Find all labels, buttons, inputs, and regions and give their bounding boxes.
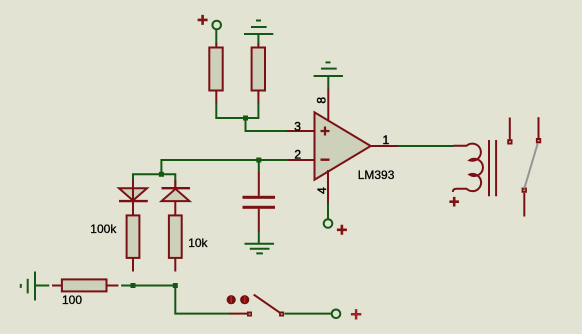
relay contact right (NO): [536, 117, 541, 143]
resistor R2 (top right, vertical): [252, 43, 265, 104]
wire: terminal to R1: [215, 30, 217, 44]
pin number 8 (rotated): [315, 97, 329, 104]
pin 2 lead of op-amp: [287, 159, 315, 161]
wire: diode tops horizontal: [133, 174, 175, 188]
svg-text:8: 8: [315, 97, 329, 104]
junction at 10k bottom: [173, 283, 178, 288]
switch SW1 blade: [254, 295, 282, 314]
svg-text:10k: 10k: [188, 236, 208, 250]
pin number 4 (rotated): [315, 187, 329, 194]
op-amp pin 1 lead: [371, 145, 398, 147]
svg-text:2: 2: [294, 147, 301, 161]
switch SW1 left lead: [229, 313, 247, 315]
junction at diode net: [159, 172, 164, 177]
ground (inverted) above R2: [244, 21, 273, 45]
plus mark near coil: [449, 197, 459, 207]
pin number 1: [383, 133, 390, 147]
power terminal + bottom right: [332, 309, 362, 319]
ground above op-amp (inverted): [314, 62, 343, 76]
label 100: [62, 293, 82, 307]
wire: pin 1 to relay coil: [398, 145, 455, 147]
resistor R4 10k: [169, 215, 182, 271]
resistor R3 100k: [127, 215, 140, 271]
wire: junction down to op-amp pin 3: [246, 118, 289, 131]
relay RL1 coil: [453, 144, 483, 192]
svg-text:3: 3: [294, 119, 301, 133]
junction at 100k bottom: [131, 283, 136, 288]
capacitor C1 bottom lead: [258, 209, 260, 244]
op-amp U1 triangle: [315, 112, 371, 179]
wire: R1 bottom to R2 bottom: [216, 103, 258, 119]
label LM393: [358, 168, 395, 182]
svg-text:1: 1: [383, 133, 390, 147]
pin 3 lead of op-amp: [287, 130, 315, 132]
switch SW1 throw square: [279, 312, 284, 317]
power terminal V+ top-left: [198, 15, 221, 29]
op-amp pin 8 lead: [327, 77, 329, 121]
diode D2 (cathode up): [162, 188, 191, 201]
wire: ground to R5: [35, 285, 50, 287]
pin end marker right of R5: [119, 284, 122, 287]
junction under top resistors: [243, 116, 248, 121]
diode D1 (cathode down): [119, 188, 148, 201]
label 10k: [188, 236, 208, 250]
relay armature blade (gray): [524, 144, 537, 189]
pin number 3: [294, 119, 301, 133]
diode D2 lead (through): [174, 180, 176, 215]
capacitor C1 plates: [243, 196, 276, 209]
wire: pin 2 left run: [161, 160, 288, 174]
relay core lines: [489, 140, 496, 196]
op-amp - input mark: [321, 158, 330, 160]
junction at capacitor tap: [256, 158, 261, 163]
svg-text:100k: 100k: [90, 222, 117, 236]
relay common contact (bottom): [522, 188, 527, 217]
pin number 2: [294, 147, 301, 161]
svg-text:100: 100: [62, 293, 82, 307]
svg-text:4: 4: [315, 187, 329, 194]
wire: junction down and right to switch: [175, 286, 229, 314]
switch SW1 red actuator dots: [227, 295, 250, 304]
ground below capacitor: [245, 244, 275, 254]
resistor R1 (top left, vertical): [209, 43, 222, 104]
relay contact left (NC): [507, 118, 512, 145]
switch SW1 pole square: [247, 312, 252, 317]
diode D1 lead (through): [132, 180, 134, 215]
wire: R5 to junctions: [121, 285, 175, 287]
ground left (rotated): [21, 272, 35, 301]
wire: switch to terminal: [285, 313, 331, 315]
label 100k: [90, 222, 117, 236]
resistor R5 100 (horizontal): [52, 279, 119, 291]
svg-text:LM393: LM393: [358, 168, 395, 182]
op-amp pin 4 lead: [327, 170, 329, 219]
pin end marker left of R5: [49, 284, 52, 287]
capacitor C1 top lead: [258, 160, 260, 196]
terminal at pin 4: [324, 219, 347, 235]
op-amp + input mark: [321, 127, 330, 136]
